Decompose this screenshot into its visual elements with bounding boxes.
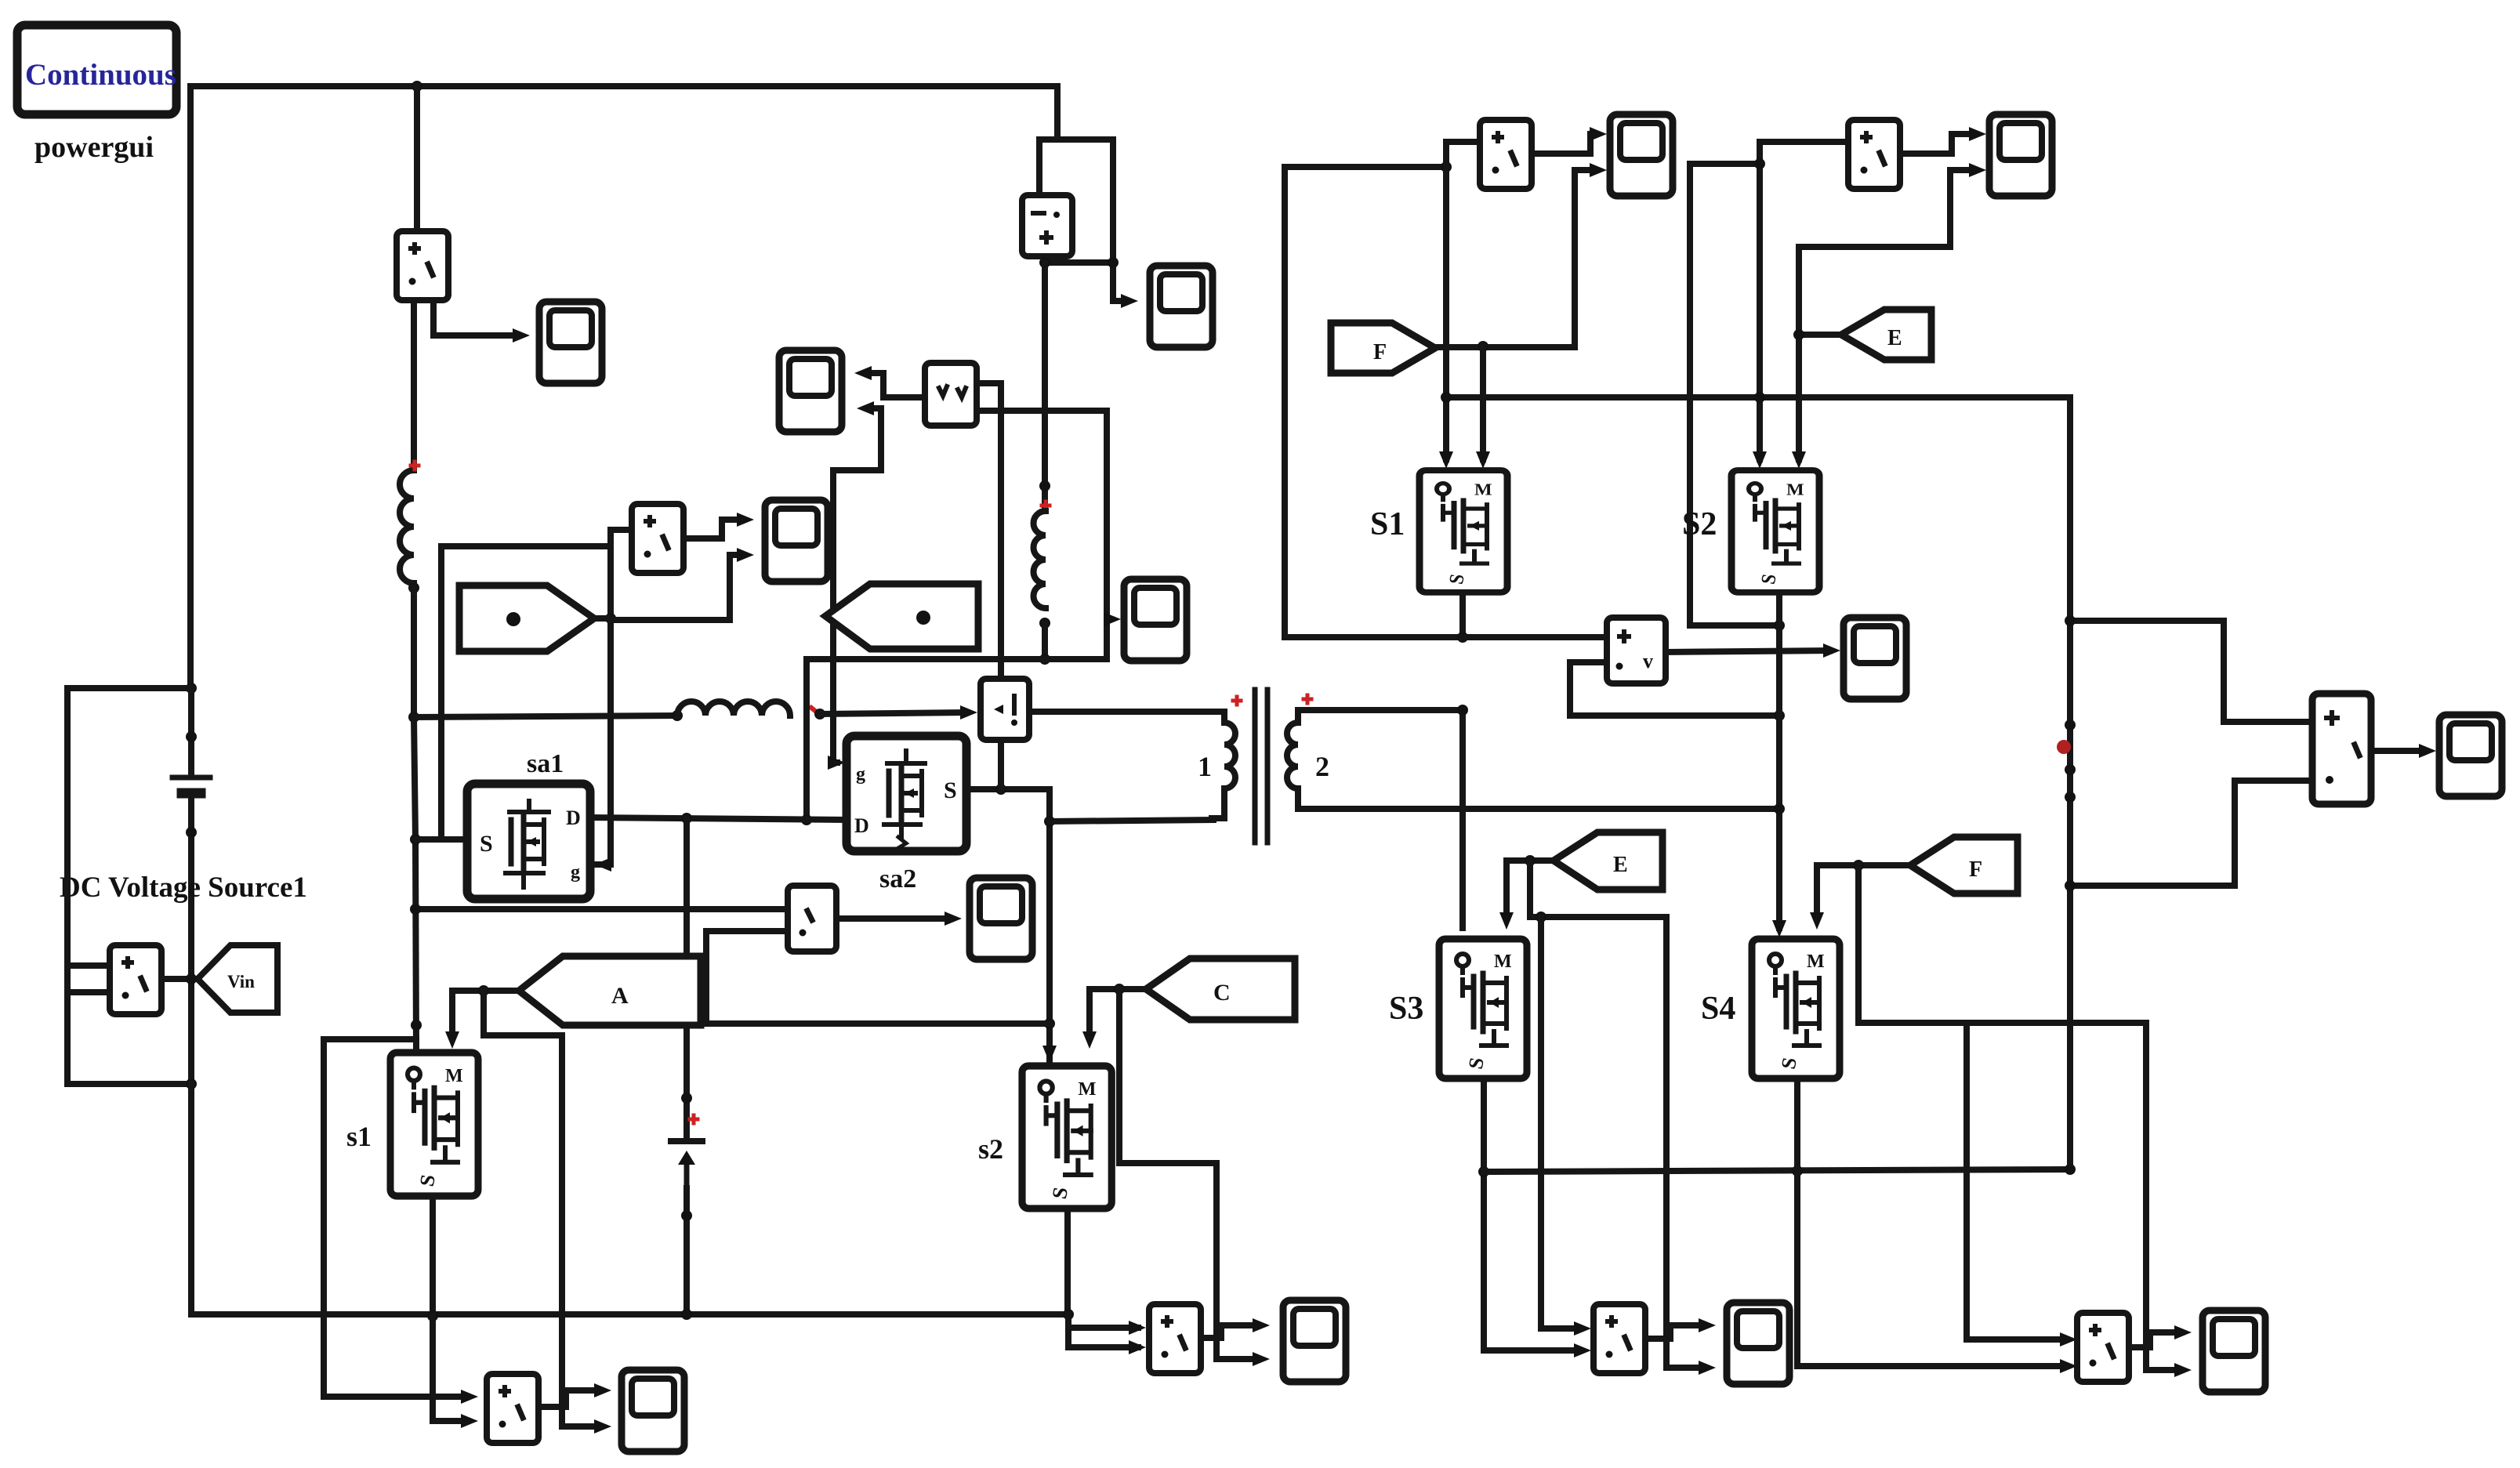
svg-text:s1: s1 — [346, 1121, 372, 1152]
scope ScopeB — [765, 500, 828, 582]
wire: to Scope7 input 2 — [562, 1407, 600, 1426]
wire: node E down to meas6 input — [1530, 861, 1666, 917]
goto tag B — [459, 585, 594, 651]
goto tag Vin — [198, 945, 277, 1013]
wire: VM4 loop to s2 drain — [706, 931, 1050, 1024]
voltage measurement VM2 — [925, 363, 977, 426]
series load element on output rail — [2057, 720, 2076, 803]
inductor L1 (vertical coil) — [400, 470, 414, 583]
wire: s1 loop around drain — [324, 1039, 467, 1397]
MOSFET S1 — [1420, 470, 1507, 593]
svg-text:2: 2 — [1315, 751, 1329, 782]
wire: CM1 to Scope1 — [433, 300, 519, 335]
wire: top bus left vertical down to battery — [187, 86, 194, 688]
wire: VM3 upper input from S1 source rail — [1463, 634, 1607, 640]
wire: s2 source down to return bus — [1064, 1209, 1071, 1314]
scope Scope9 — [2203, 1310, 2265, 1392]
DC voltage source battery — [172, 683, 210, 1314]
wire: ScopeB2 input tap — [1107, 616, 1110, 622]
wire: VM4 input from boost node rail — [415, 906, 788, 912]
svg-text:DC Voltage Source1: DC Voltage Source1 — [60, 872, 307, 904]
wire: down to inductor L2 — [1042, 263, 1048, 509]
wire: gate rail down to sa1 gate through node B — [596, 546, 611, 864]
wire: bottom return bus — [191, 1084, 1068, 1314]
wire: sa1 drain to D-rail — [590, 817, 847, 820]
svg-text:g: g — [571, 862, 580, 883]
wire: node C to Scope6 input 2 — [1216, 1356, 1259, 1362]
wire: secondary top to S1-S3 midpoint — [1298, 707, 1463, 713]
wire: tag F to S1 gate and scope branch — [1435, 345, 1575, 347]
svg-text:E: E — [1887, 326, 1902, 350]
from tag C — [1146, 959, 1295, 1020]
svg-text:S: S — [944, 777, 957, 803]
MOSFET sa1 — [467, 784, 590, 899]
svg-text:Vin: Vin — [227, 972, 255, 991]
svg-text:g: g — [856, 764, 865, 785]
current measurement meas6 — [1594, 1304, 1645, 1373]
wire: S3 source to negative rail — [1484, 1080, 1580, 1350]
wire: VM2 output to ScopeC input 1 — [865, 373, 925, 397]
scope ScopeA — [1150, 266, 1213, 347]
wire: negative output rail — [1484, 1169, 2070, 1172]
wire: node B to ScopeB input 2 — [611, 555, 743, 620]
svg-text:S3: S3 — [1389, 991, 1423, 1027]
current measurement CM2 — [1480, 120, 1532, 189]
svg-text:E: E — [1613, 853, 1628, 877]
goto tag F — [1331, 323, 1435, 373]
wire: main power line to inductor L3 — [414, 716, 677, 717]
current measurement meas7 — [2077, 1313, 2129, 1382]
wire: VM2 terminal to sa2 drain rail — [977, 411, 1107, 659]
primary winding 1 — [1212, 712, 1235, 818]
from tag A — [519, 956, 701, 1025]
wire: sa2 source node down to s2 drain — [1046, 789, 1053, 1060]
wire: S4 source to meas7 lower input — [1797, 1080, 2066, 1366]
wire: secondary bottom to S2-S4 midpoint — [1298, 806, 1779, 812]
wire: tag B point to node — [594, 615, 611, 622]
wire: s1 source down to return bus — [430, 1198, 436, 1316]
wire: CM1 down to inductor L1 — [411, 300, 417, 470]
scope Scope1 — [539, 302, 602, 383]
scope ScopeE — [1989, 114, 2052, 196]
MOSFET S2 — [1731, 470, 1819, 593]
wire: top supply bus horizontal — [190, 83, 1057, 89]
transformer T1 — [1050, 690, 1329, 843]
wire: drain rail down to sa2 drain line — [803, 659, 810, 820]
MOSFET s1 — [390, 1053, 478, 1196]
inductor L3 (horizontal coil) — [677, 701, 790, 716]
svg-text:D: D — [566, 806, 581, 829]
svg-text:s2: s2 — [978, 1133, 1003, 1165]
voltage measurement VM3 — [1607, 618, 1666, 683]
MOSFET S3 — [1439, 939, 1527, 1078]
wire: CM3 output to ScopeE input 1 — [1900, 134, 1975, 154]
wire: CM2 output to ScopeD input 1 — [1532, 134, 1596, 154]
wire: node E branch to Scope8 input 2 — [1663, 917, 1670, 1368]
wire: node E up to ScopeE input 2 — [1799, 170, 1975, 247]
current measurement meas4 — [487, 1374, 538, 1443]
from tag F (lower) — [1910, 837, 2018, 893]
wire: VM4 output to Scope5 — [836, 915, 951, 922]
svg-text:sa1: sa1 — [527, 749, 564, 778]
MOSFET S4 — [1752, 939, 1840, 1078]
wire: node A down to Scope7 input — [484, 991, 562, 1407]
powergui block — [17, 25, 176, 114]
scope Scope10 — [2439, 715, 2502, 796]
wire: sa2 drain rail horizontal — [807, 656, 1107, 662]
wire: i1 bottom tap — [998, 740, 1004, 789]
core — [1255, 690, 1267, 843]
wire: DC output positive rail from S1/S2 drains — [1446, 397, 2070, 1169]
capacitor C1 — [671, 1141, 702, 1188]
wire: VM3 lower input tap to S2 source — [1570, 662, 1779, 716]
wire: to Scope7 input 1 — [562, 1390, 600, 1407]
wire: node D up to ScopeC input 2 — [833, 408, 881, 470]
scope Scope7 — [622, 1370, 684, 1452]
wire: node D rail down to sa2 gate — [833, 470, 837, 763]
wire: M1 output to ScopeB input 1 — [683, 520, 743, 538]
wire: S1 source down to S3 drain — [1459, 710, 1466, 928]
voltage measurement VM5 — [2312, 694, 2371, 804]
wire: S2 source chain down to S4 drain — [1776, 594, 1782, 928]
MOSFET s2 — [1022, 1066, 1111, 1209]
wire: Vin-meter input stubs — [67, 966, 110, 992]
current measurement i1 — [981, 679, 1029, 740]
measurement VM-top — [1022, 195, 1072, 256]
svg-text:F: F — [1969, 857, 1982, 882]
wire: output rail tap to VM5 positive — [2070, 621, 2309, 722]
wire: S2 current loop from CM3 rail — [1760, 142, 1845, 459]
wire: meas5 output — [1201, 1325, 1259, 1338]
wire: M1 input loop to boost node — [441, 530, 632, 839]
voltage measurement Vin-meter — [110, 945, 161, 1014]
wire: Scope9 input 2 — [2146, 1367, 2181, 1373]
wire: branch over to ScopeA — [1057, 140, 1127, 301]
wire: left return loop of source — [67, 688, 191, 1084]
from tag E (lower) — [1554, 832, 1662, 890]
svg-text:powergui: powergui — [34, 131, 154, 164]
svg-text:sa2: sa2 — [879, 864, 916, 893]
svg-text:1: 1 — [1198, 751, 1212, 782]
svg-text:A: A — [611, 983, 629, 1009]
wire: node F loop to meas7 and Scope9 — [1858, 865, 2146, 1023]
inductor L2 (vertical coil) — [1034, 511, 1046, 608]
wire: S1 leg loop (source to top rail) — [1285, 167, 1463, 637]
goto tag E — [1841, 310, 1931, 360]
current measurement CM3 — [1848, 120, 1900, 189]
wire: VM-top output joining ScopeA feed — [1045, 256, 1113, 263]
scope ScopeF — [1844, 618, 1906, 699]
voltage measurement VM4 — [788, 886, 836, 951]
wire: sa2 source to transformer node — [966, 786, 1050, 792]
wire: L1 to main boost node — [411, 583, 417, 719]
wire: bus to meas5 inputs — [1068, 1314, 1138, 1347]
capacitor C1 branch — [683, 818, 690, 1141]
wire: top rail into CM2 and S1 drain — [1446, 142, 1477, 459]
current measurement CM1 — [397, 231, 448, 300]
from tag D — [825, 584, 978, 649]
wire: tag E to S3 gate — [1507, 861, 1554, 917]
svg-text:S2: S2 — [1682, 506, 1717, 542]
scope ScopeB2 — [1124, 579, 1187, 661]
wire: sa1 source stub — [415, 836, 467, 843]
svg-text:Continuous: Continuous — [25, 58, 176, 92]
MOSFET sa2 — [847, 736, 966, 851]
wire: VM5 output to Scope10 — [2371, 748, 2425, 754]
wire: Scope8 input 2 — [1666, 1365, 1705, 1371]
svg-text:v: v — [1643, 650, 1653, 672]
svg-text:C: C — [1213, 980, 1231, 1006]
wire: tag E to S2 gate — [1799, 247, 1841, 459]
wire: tag A to s1 gate — [452, 991, 519, 1036]
svg-text:F: F — [1373, 340, 1387, 364]
node: main line / L1 — [408, 712, 419, 723]
wire: vertical x530 down to sa1 source and s1 drain — [414, 717, 416, 1053]
scope ScopeD — [1610, 114, 1673, 196]
wire: meas7 output to Scope9 input 1 — [2129, 1332, 2181, 1347]
wire: node F up to ScopeD input 2 — [1575, 170, 1596, 347]
wire: VM3 output to ScopeF — [1666, 651, 1829, 652]
svg-text:S1: S1 — [1370, 506, 1405, 542]
wire: L2 to sa2 drain rail — [1042, 623, 1048, 659]
wire: VM2 terminal to i1 signal — [977, 383, 1001, 679]
wire: meas6 output to Scope8 input 1 — [1645, 1325, 1705, 1339]
wire: tag F to S4 gate — [1817, 865, 1910, 917]
svg-text:S4: S4 — [1701, 991, 1735, 1027]
scope ScopeC (inputs on right) — [779, 350, 842, 432]
current measurement meas5 — [1149, 1304, 1201, 1373]
wire: node C down and around to Scope6 input — [1119, 989, 1216, 1359]
wire: top corner down to measurement VM-top — [1039, 86, 1057, 195]
scope Scope8 — [1727, 1303, 1789, 1384]
wire: s1 source to meas4 lower input — [433, 1316, 467, 1421]
node: top bus / CM1 tap — [412, 81, 422, 92]
scope Scope5 — [970, 878, 1032, 959]
wire: meas4 output merge with node A — [538, 1404, 562, 1410]
wire: tag C to s2 gate — [1090, 989, 1146, 1036]
svg-text:S: S — [480, 831, 493, 857]
wire: output rail tap to VM5 negative — [2070, 781, 2309, 886]
scope Scope6 — [1283, 1300, 1346, 1382]
wire: tap down into current measurement CM1 — [414, 86, 420, 231]
wire: L3 to current measurement i1 — [820, 712, 966, 714]
wire: Vin-meter output to Vin tag — [161, 976, 198, 982]
measurement M1 — [632, 504, 683, 573]
svg-text:D: D — [854, 814, 869, 837]
secondary winding 2 — [1287, 710, 1298, 809]
wire: i1 output to transformer primary — [1029, 709, 1224, 715]
